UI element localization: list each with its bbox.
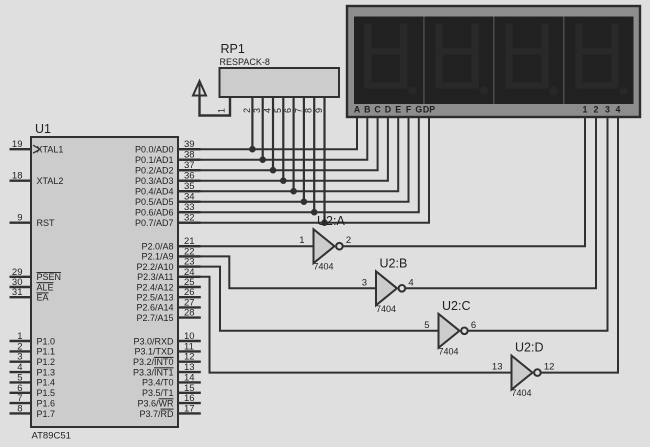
svg-text:RP1: RP1 bbox=[221, 42, 245, 56]
U2:D value label 7404 bbox=[512, 388, 532, 398]
svg-text:P1.2: P1.2 bbox=[37, 357, 56, 367]
svg-text:1: 1 bbox=[17, 331, 22, 342]
U1 pin number 28 bbox=[184, 308, 195, 319]
U1 pin number 21 bbox=[184, 236, 195, 247]
wire display pin 4 to U2:D output bbox=[541, 118, 618, 373]
U1 pin 17 label P3.7/RD bbox=[139, 409, 174, 419]
svg-text:D: D bbox=[385, 104, 391, 114]
U1 pin 26 label P2.5/A13 bbox=[136, 293, 173, 303]
RP1 pin 5 number bbox=[273, 108, 283, 113]
svg-text:P0.4/AD4: P0.4/AD4 bbox=[135, 187, 174, 197]
U1 pin 6 P1.5 stub wire bbox=[10, 392, 32, 394]
wire stub P3.2 bbox=[178, 361, 201, 363]
U2:A input pin number 1 bbox=[299, 235, 304, 246]
RP1 pin 7 wire to P0.5 bbox=[303, 97, 305, 202]
RP1 pin 6 wire to P0.4 bbox=[293, 97, 295, 191]
U1 pin number 35 bbox=[184, 181, 195, 192]
RP1 pin 2 number bbox=[242, 108, 252, 113]
U1 pin 12 label P3.2/INT0 bbox=[133, 357, 174, 367]
display digit select pin label 3 bbox=[605, 104, 610, 114]
7-segment display module body bbox=[347, 6, 640, 117]
U1 pin number 25 bbox=[184, 277, 195, 288]
svg-text:P1.3: P1.3 bbox=[37, 367, 56, 377]
svg-text:P2.4/A12: P2.4/A12 bbox=[136, 282, 173, 292]
svg-text:P1.4: P1.4 bbox=[37, 378, 56, 388]
RP1 pin 4 number bbox=[263, 108, 273, 113]
wire display pin 3 to U2:C output bbox=[468, 118, 608, 331]
U1 pin number 39 bbox=[184, 139, 195, 150]
U1 pin number 32 bbox=[184, 213, 195, 224]
wire display pin 1 to U2:A output bbox=[343, 118, 585, 247]
svg-text:P3.4/T0: P3.4/T0 bbox=[142, 378, 174, 388]
resistor pack RP1 body bbox=[220, 68, 340, 97]
U1 pin number 8 bbox=[17, 403, 22, 414]
U2:D refdes label bbox=[515, 341, 543, 355]
wire P0.5 to display segment pin bbox=[178, 118, 409, 202]
svg-text:2: 2 bbox=[242, 108, 252, 113]
inverter U2:B 7404 bbox=[376, 271, 405, 305]
U2:A refdes label bbox=[317, 214, 345, 228]
svg-text:P0.1/AD1: P0.1/AD1 bbox=[135, 155, 174, 165]
wire stub P3.6 bbox=[178, 402, 201, 404]
wire P0.0 to display segment pin bbox=[178, 118, 357, 150]
svg-text:3: 3 bbox=[362, 277, 367, 288]
U1 pin number 24 bbox=[184, 267, 195, 278]
svg-text:1: 1 bbox=[217, 108, 227, 113]
svg-text:4: 4 bbox=[263, 108, 273, 113]
microcontroller U1 body bbox=[31, 137, 178, 427]
svg-text:7404: 7404 bbox=[439, 346, 459, 356]
svg-text:1: 1 bbox=[583, 104, 588, 114]
U1 pin number 34 bbox=[184, 192, 195, 203]
U1 pin number 31 bbox=[12, 287, 23, 298]
svg-text:3: 3 bbox=[17, 352, 22, 363]
svg-text:6: 6 bbox=[283, 108, 293, 113]
U1 pin number 37 bbox=[184, 160, 195, 171]
U1 pin label P1.2 bbox=[37, 357, 56, 367]
svg-text:RST: RST bbox=[37, 218, 56, 228]
U1 pin 39 label P0.0/AD0 bbox=[135, 145, 174, 155]
U1 pin 16 label P3.6/WR bbox=[137, 398, 174, 408]
wire stub P3.4 bbox=[178, 381, 201, 383]
svg-text:G: G bbox=[415, 104, 422, 114]
svg-text:P2.7/A15: P2.7/A15 bbox=[136, 313, 173, 323]
svg-text:P2.5/A13: P2.5/A13 bbox=[136, 293, 173, 303]
U1 pin number 7 bbox=[17, 393, 22, 404]
display digit select pin label 4 bbox=[616, 104, 621, 114]
U1 pin 8 P1.7 stub wire bbox=[10, 412, 32, 414]
svg-text:12: 12 bbox=[544, 362, 555, 373]
display segment pin label B bbox=[364, 104, 370, 114]
svg-text:1: 1 bbox=[299, 235, 304, 246]
U2:D input pin number 13 bbox=[492, 362, 503, 373]
U1 pin number 19 bbox=[12, 139, 23, 150]
RP1 pin 3 wire to P0.1 bbox=[262, 97, 264, 160]
U1 pin 37 label P0.2/AD2 bbox=[135, 166, 174, 176]
U2:C refdes label bbox=[442, 299, 470, 313]
U1 pin 28 label P2.7/A15 bbox=[136, 313, 173, 323]
wire stub P3.1 bbox=[178, 350, 201, 352]
U1 pin label RST bbox=[37, 218, 56, 228]
svg-text:RESPACK-8: RESPACK-8 bbox=[220, 57, 270, 67]
U2:B input pin number 3 bbox=[362, 277, 367, 288]
svg-text:P3.0/RXD: P3.0/RXD bbox=[133, 336, 174, 346]
display segment pin label G bbox=[415, 104, 422, 114]
U1 pin 13 label P3.3/INT1 bbox=[133, 367, 174, 377]
display segment pin label A bbox=[354, 104, 361, 114]
display black window bbox=[354, 17, 634, 105]
RP1 pin 8 wire to P0.6 bbox=[313, 97, 315, 212]
svg-text:P3.6/WR: P3.6/WR bbox=[137, 398, 174, 408]
U1 pin 23 label P2.2/A10 bbox=[136, 262, 173, 272]
inverter U2:A 7404 bbox=[314, 229, 343, 263]
wire P0.4 to display segment pin bbox=[178, 118, 398, 192]
svg-text:P2.6/A14: P2.6/A14 bbox=[136, 303, 173, 313]
RP1 pin 6 number bbox=[283, 108, 293, 113]
U1 pin number 10 bbox=[184, 331, 195, 342]
U1 pin number 3 bbox=[17, 352, 22, 363]
U1 pin number 2 bbox=[17, 341, 22, 352]
wire P0.3 to display segment pin bbox=[178, 118, 388, 181]
display segment pin label C bbox=[374, 104, 381, 114]
svg-text:3: 3 bbox=[252, 108, 262, 113]
junction node P0.1 / RP1 pin 3 bbox=[259, 156, 266, 163]
U1 pin 29 PSEN stub wire bbox=[10, 276, 32, 278]
svg-text:AT89C51: AT89C51 bbox=[32, 431, 71, 442]
RP1 pin 8 number bbox=[304, 108, 314, 113]
U2:B refdes label bbox=[380, 256, 408, 270]
U1 pin 4 P1.3 stub wire bbox=[10, 371, 32, 373]
U1 pin 11 label P3.1/TXD bbox=[134, 347, 174, 357]
RP1 refdes label bbox=[221, 42, 245, 56]
U1 pin label P1.0 bbox=[37, 336, 56, 346]
U1 pin label P1.1 bbox=[37, 347, 56, 357]
U1 pin number 36 bbox=[184, 171, 195, 182]
U1 pin number 33 bbox=[184, 202, 195, 213]
svg-text:31: 31 bbox=[12, 287, 23, 298]
wire P2.0 to U2:A input bbox=[178, 245, 314, 247]
U1 pin number 38 bbox=[184, 150, 195, 161]
wire stub P2.4 bbox=[178, 286, 201, 288]
svg-text:4: 4 bbox=[616, 104, 621, 114]
U1 pin 27 label P2.6/A14 bbox=[136, 303, 173, 313]
wire P2.1 to U2:B input bbox=[178, 256, 376, 288]
svg-text:P2.2/A10: P2.2/A10 bbox=[136, 262, 173, 272]
U1 pin label PSEN bbox=[37, 272, 62, 282]
display cell separator 1 bbox=[423, 17, 425, 105]
display segment pin label F bbox=[406, 104, 412, 114]
U2:A output pin number 2 bbox=[346, 235, 351, 246]
inverter U2:D 7404 bbox=[512, 356, 541, 390]
svg-text:U2:C: U2:C bbox=[442, 299, 470, 313]
U1 pin number 12 bbox=[184, 352, 195, 363]
U1 pin 31 EA stub wire bbox=[10, 296, 32, 298]
U1 pin number 9 bbox=[17, 213, 22, 224]
U1 pin number 13 bbox=[184, 362, 195, 373]
svg-text:P0.6/AD6: P0.6/AD6 bbox=[135, 208, 174, 218]
U2:B value label 7404 bbox=[376, 304, 396, 314]
U1 pin 19 XTAL1 stub wire bbox=[10, 148, 32, 150]
U1 pin number 4 bbox=[17, 362, 22, 373]
svg-text:2: 2 bbox=[346, 235, 351, 246]
U2:D output pin number 12 bbox=[544, 362, 555, 373]
svg-text:XTAL2: XTAL2 bbox=[37, 176, 64, 186]
U1 pin 34 label P0.5/AD5 bbox=[135, 197, 174, 207]
junction node P0.0 / RP1 pin 2 bbox=[249, 146, 256, 153]
svg-text:P1.7: P1.7 bbox=[37, 409, 56, 419]
U1 pin 21 label P2.0/A8 bbox=[141, 242, 173, 252]
U2:B output pin number 4 bbox=[408, 277, 413, 288]
svg-text:P3.7/RD: P3.7/RD bbox=[139, 409, 174, 419]
U1 pin label P1.5 bbox=[37, 388, 56, 398]
U1 pin 18 XTAL2 stub wire bbox=[10, 179, 32, 181]
svg-text:7404: 7404 bbox=[512, 388, 532, 398]
svg-text:7404: 7404 bbox=[376, 304, 396, 314]
U1 refdes label bbox=[35, 122, 51, 136]
display digit select pin label 2 bbox=[594, 104, 599, 114]
U1 pin 2 P1.1 stub wire bbox=[10, 350, 32, 352]
wire stub P2.6 bbox=[178, 306, 201, 308]
U1 pin number 23 bbox=[184, 257, 195, 268]
display segment pin label E bbox=[395, 104, 401, 114]
U1 pin number 5 bbox=[17, 372, 22, 383]
svg-text:5: 5 bbox=[17, 372, 22, 383]
RP1 pin 1 number bbox=[217, 108, 227, 113]
U1 pin number 6 bbox=[17, 383, 22, 394]
svg-text:P0.7/AD7: P0.7/AD7 bbox=[135, 218, 174, 228]
RP1 pin 4 wire to P0.2 bbox=[272, 97, 274, 170]
junction node P0.4 / RP1 pin 6 bbox=[290, 188, 297, 195]
svg-text:P2.1/A9: P2.1/A9 bbox=[141, 252, 173, 262]
svg-text:5: 5 bbox=[424, 320, 429, 331]
display segment pin label DP bbox=[423, 104, 435, 114]
RP1 pin 2 wire to P0.0 bbox=[251, 97, 253, 149]
U1 pin number 11 bbox=[184, 341, 194, 352]
U1 pin number 15 bbox=[184, 383, 195, 394]
svg-text:U2:A: U2:A bbox=[317, 214, 345, 228]
wire P0.2 to display segment pin bbox=[178, 118, 378, 171]
svg-text:A: A bbox=[354, 104, 361, 114]
U1 pin number 27 bbox=[184, 297, 195, 308]
wire display pin 2 to U2:B output bbox=[405, 118, 596, 289]
svg-text:9: 9 bbox=[17, 213, 22, 224]
wire P2.2 to U2:C input bbox=[178, 267, 439, 331]
svg-text:P3.5/T1: P3.5/T1 bbox=[142, 388, 174, 398]
U1 pin 3 P1.2 stub wire bbox=[10, 361, 32, 363]
wire stub P2.7 bbox=[178, 316, 201, 318]
svg-text:PSEN: PSEN bbox=[37, 272, 62, 282]
svg-text:P2.3/A11: P2.3/A11 bbox=[137, 272, 173, 282]
RP1 pin 1 wire to power bbox=[200, 95, 231, 116]
wire P0.7 to display segment pin bbox=[178, 118, 429, 223]
U1 pin number 30 bbox=[12, 277, 23, 288]
U1 pin label P1.4 bbox=[37, 378, 56, 388]
display segment pin label D bbox=[385, 104, 391, 114]
display digit 4 ghost segments bbox=[575, 24, 628, 96]
svg-text:ALE: ALE bbox=[37, 282, 54, 292]
U1 value label AT89C51 bbox=[32, 431, 71, 442]
svg-text:U2:D: U2:D bbox=[515, 341, 543, 355]
wire stub P3.5 bbox=[178, 392, 201, 394]
svg-text:5: 5 bbox=[273, 108, 283, 113]
svg-text:2: 2 bbox=[594, 104, 599, 114]
U2:A value label 7404 bbox=[314, 262, 334, 272]
wire P2.3 to U2:D input bbox=[178, 277, 512, 373]
U1 pin 30 ALE stub wire bbox=[10, 286, 32, 288]
wire stub P3.3 bbox=[178, 371, 201, 373]
U1 pin number 22 bbox=[184, 246, 195, 257]
display digit 3 ghost segments bbox=[505, 24, 558, 96]
U1 pin 36 label P0.3/AD3 bbox=[135, 176, 174, 186]
U1 pin 7 P1.6 stub wire bbox=[10, 402, 32, 404]
svg-text:13: 13 bbox=[492, 362, 503, 373]
svg-text:P3.3/INT1: P3.3/INT1 bbox=[133, 367, 174, 377]
svg-text:9: 9 bbox=[314, 108, 324, 113]
U1 pin 10 label P3.0/RXD bbox=[133, 336, 174, 346]
junction node P0.2 / RP1 pin 4 bbox=[270, 167, 277, 174]
U1 pin number 16 bbox=[184, 393, 195, 404]
U1 pin label P1.6 bbox=[37, 398, 56, 408]
display digit 1 ghost segments bbox=[364, 24, 417, 96]
display digit 2 ghost segments bbox=[435, 24, 488, 96]
svg-text:8: 8 bbox=[304, 108, 314, 113]
svg-text:P1.1: P1.1 bbox=[37, 347, 56, 357]
U1 pin label EA bbox=[37, 293, 49, 303]
svg-text:EA: EA bbox=[37, 293, 49, 303]
RP1 pin 5 wire to P0.3 bbox=[282, 97, 284, 181]
U1 pin number 14 bbox=[184, 372, 195, 383]
wire P0.1 to display segment pin bbox=[178, 118, 367, 160]
U1 pin 24 label P2.3/A11 bbox=[137, 272, 173, 282]
svg-text:18: 18 bbox=[12, 171, 23, 182]
svg-text:U1: U1 bbox=[35, 122, 51, 136]
wire P0.6 to display segment pin bbox=[178, 118, 419, 213]
U1 pin number 26 bbox=[184, 287, 195, 298]
U1 pin 25 label P2.4/A12 bbox=[136, 282, 173, 292]
svg-text:P0.3/AD3: P0.3/AD3 bbox=[135, 176, 174, 186]
U1 pin label XTAL2 bbox=[37, 176, 64, 186]
svg-text:P1.0: P1.0 bbox=[37, 336, 56, 346]
svg-text:P3.1/TXD: P3.1/TXD bbox=[134, 347, 174, 357]
svg-text:4: 4 bbox=[408, 277, 413, 288]
U2:C value label 7404 bbox=[439, 346, 459, 356]
U1 pin number 17 bbox=[184, 403, 195, 414]
inverter U2:C 7404 bbox=[439, 314, 468, 348]
U1 pin 35 label P0.4/AD4 bbox=[135, 187, 174, 197]
wire stub P3.7 bbox=[178, 412, 201, 414]
svg-text:3: 3 bbox=[605, 104, 610, 114]
U1 pin 1 P1.0 stub wire bbox=[10, 340, 32, 342]
U1 pin label XTAL1 bbox=[37, 145, 64, 155]
XTAL1 clock chevron bbox=[33, 145, 40, 153]
RP1 value label RESPACK-8 bbox=[220, 57, 270, 67]
U1 pin number 18 bbox=[12, 171, 23, 182]
U1 pin 33 label P0.6/AD6 bbox=[135, 208, 174, 218]
U1 pin label P1.7 bbox=[37, 409, 56, 419]
svg-text:F: F bbox=[406, 104, 412, 114]
svg-text:E: E bbox=[395, 104, 401, 114]
U1 pin 32 label P0.7/AD7 bbox=[135, 218, 174, 228]
U1 pin 5 P1.4 stub wire bbox=[10, 381, 32, 383]
svg-text:7: 7 bbox=[293, 108, 303, 113]
U1 pin 9 RST stub wire bbox=[10, 221, 32, 223]
wire stub P3.0 bbox=[178, 340, 201, 342]
junction node P0.7 / RP1 pin 9 bbox=[321, 219, 328, 226]
U2:C input pin number 5 bbox=[424, 320, 429, 331]
junction node P0.5 / RP1 pin 7 bbox=[301, 198, 308, 205]
U1 pin label P1.3 bbox=[37, 367, 56, 377]
RP1 pin 9 number bbox=[314, 108, 324, 113]
svg-text:U2:B: U2:B bbox=[380, 256, 408, 270]
junction node P0.3 / RP1 pin 5 bbox=[280, 177, 287, 184]
svg-text:7404: 7404 bbox=[314, 262, 334, 272]
U1 pin 22 label P2.1/A9 bbox=[141, 252, 173, 262]
svg-text:C: C bbox=[374, 104, 381, 114]
display digit select pin label 1 bbox=[583, 104, 588, 114]
U1 pin 15 label P3.5/T1 bbox=[142, 388, 174, 398]
svg-text:DP: DP bbox=[423, 104, 435, 114]
wire stub P2.5 bbox=[178, 296, 201, 298]
svg-text:P0.5/AD5: P0.5/AD5 bbox=[135, 197, 174, 207]
RP1 pin 9 wire to P0.7 bbox=[323, 97, 325, 223]
svg-text:6: 6 bbox=[471, 320, 476, 331]
svg-text:P0.2/AD2: P0.2/AD2 bbox=[135, 166, 174, 176]
RP1 pin 7 number bbox=[293, 108, 303, 113]
U1 pin number 29 bbox=[12, 267, 23, 278]
svg-text:P1.5: P1.5 bbox=[37, 388, 56, 398]
svg-text:19: 19 bbox=[12, 139, 23, 150]
U1 pin 14 label P3.4/T0 bbox=[142, 378, 174, 388]
display cell separator 3 bbox=[563, 17, 565, 105]
svg-text:P3.2/INT0: P3.2/INT0 bbox=[133, 357, 174, 367]
U2:C output pin number 6 bbox=[471, 320, 476, 331]
junction node P0.6 / RP1 pin 8 bbox=[311, 209, 318, 216]
display cell separator 2 bbox=[493, 17, 495, 105]
U1 pin 38 label P0.1/AD1 bbox=[135, 155, 174, 165]
U1 pin number 1 bbox=[17, 331, 22, 342]
svg-text:8: 8 bbox=[17, 403, 22, 414]
svg-text:B: B bbox=[364, 104, 370, 114]
U1 pin label ALE bbox=[37, 282, 54, 292]
power symbol (arrow up) bbox=[193, 81, 206, 97]
svg-text:P1.6: P1.6 bbox=[37, 398, 56, 408]
svg-text:P0.0/AD0: P0.0/AD0 bbox=[135, 145, 174, 155]
svg-text:P2.0/A8: P2.0/A8 bbox=[141, 242, 173, 252]
RP1 pin 3 number bbox=[252, 108, 262, 113]
